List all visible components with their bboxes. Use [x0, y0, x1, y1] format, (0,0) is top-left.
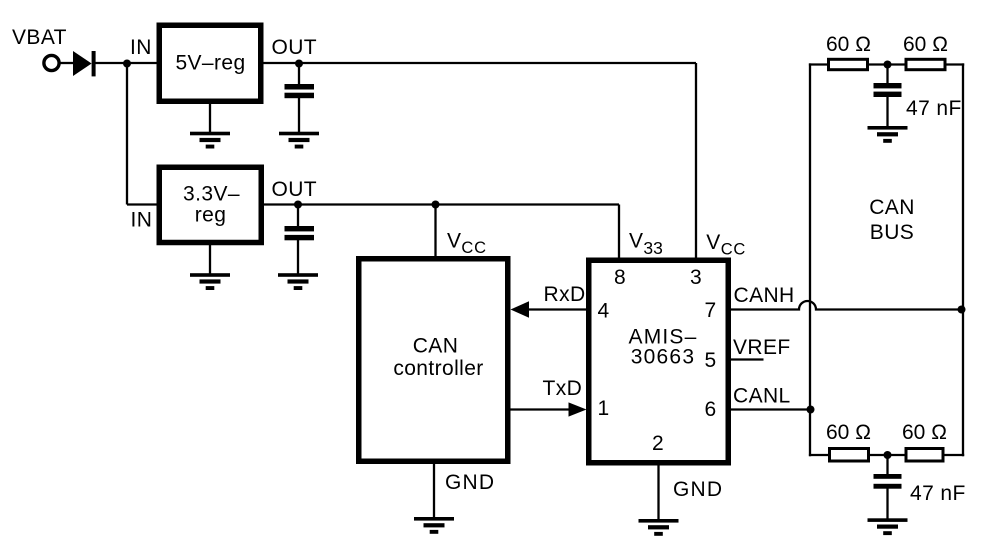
- ground below C4: [868, 518, 908, 535]
- resistor R2 60 ohm top-right: [906, 59, 945, 69]
- node CANH right rail junction: [958, 306, 966, 314]
- svg-text:7: 7: [704, 299, 716, 322]
- node 5V OUT junction: [295, 60, 303, 68]
- svg-text:TxD: TxD: [543, 377, 583, 400]
- svg-text:5V–reg: 5V–reg: [175, 52, 245, 75]
- svg-text:47 nF: 47 nF: [910, 482, 966, 505]
- svg-text:2: 2: [652, 432, 664, 455]
- wire RxD line: [527, 308, 586, 310]
- wire into 3.3V-reg IN: [127, 203, 157, 205]
- regulator U1 5V-reg box: [159, 25, 261, 101]
- node bottom termination junction: [884, 451, 892, 459]
- svg-text:V33: V33: [629, 230, 663, 259]
- node 3.3V OUT junction: [294, 201, 302, 209]
- resistor R4 60 ohm bottom-right: [906, 449, 943, 462]
- wire bottom 47nF cap to ground: [886, 488, 888, 519]
- op-amp U3 CAN controller box: [359, 259, 508, 462]
- ground below AMIS-30663: [639, 519, 679, 536]
- svg-text:VREF: VREF: [733, 336, 791, 359]
- wire CANH with hop over left bus rail: [731, 301, 962, 310]
- ground below C1: [279, 132, 319, 149]
- terminal VBAT: [44, 55, 59, 70]
- svg-text:3.3V–: 3.3V–: [183, 183, 240, 206]
- wire VREF stub pin 5: [731, 358, 764, 360]
- wire node IN down to 3.3V-reg: [126, 63, 128, 205]
- wire 3.3V rail down to CAN controller VCC: [434, 205, 436, 259]
- ground below C3: [868, 126, 908, 143]
- wire VBAT terminal to diode: [60, 62, 74, 64]
- svg-text:RxD: RxD: [544, 283, 586, 306]
- svg-text:60 Ω: 60 Ω: [902, 421, 947, 444]
- wire top bus segment right: [945, 63, 964, 65]
- svg-text:BUS: BUS: [870, 221, 914, 244]
- svg-text:3: 3: [690, 266, 702, 289]
- node VCC tap junction: [432, 201, 440, 209]
- svg-text:IN: IN: [131, 209, 153, 232]
- svg-text:1: 1: [597, 397, 609, 420]
- svg-text:OUT: OUT: [272, 178, 318, 201]
- wire bottom bus segment right: [943, 454, 964, 456]
- wire bottom 47nF cap top: [886, 455, 888, 475]
- wire 5V OUT rail: [264, 62, 697, 64]
- svg-text:5: 5: [704, 349, 716, 372]
- wire top 47nF cap top: [886, 65, 888, 84]
- capacitor C3 47nF top: [874, 83, 902, 97]
- wire CAN bus left rail: [809, 63, 811, 456]
- wire capacitor C2 to ground: [297, 240, 299, 274]
- arrowhead RxD: [511, 301, 530, 317]
- capacitor C4 47nF bottom: [874, 474, 902, 489]
- svg-text:VCC: VCC: [706, 231, 746, 259]
- svg-text:4: 4: [597, 300, 609, 323]
- svg-text:GND: GND: [673, 478, 723, 501]
- svg-text:30663: 30663: [631, 346, 695, 369]
- node IN junction: [123, 60, 131, 68]
- wire CANL to left bus rail: [731, 408, 811, 410]
- wire 5V-reg ground stem: [209, 104, 211, 133]
- svg-text:OUT: OUT: [272, 36, 318, 59]
- svg-text:6: 6: [704, 398, 716, 421]
- wire CAN controller ground stem: [433, 464, 435, 518]
- diode D1: [73, 51, 96, 76]
- wire 3.3V rail down to pin 8: [618, 205, 620, 261]
- svg-text:CANL: CANL: [733, 385, 791, 408]
- wire diode to 5V-reg IN: [96, 62, 157, 64]
- svg-text:47 nF: 47 nF: [906, 97, 962, 120]
- node CANL left rail junction: [807, 406, 815, 414]
- svg-text:GND: GND: [445, 471, 495, 494]
- capacitor C2: [285, 226, 315, 240]
- ground below 3.3V-reg: [190, 273, 230, 290]
- svg-text:VCC: VCC: [447, 230, 487, 258]
- wire 5V rail down to pin 3: [695, 63, 697, 259]
- wire bottom bus segment left: [809, 454, 830, 456]
- wire TxD line: [511, 408, 572, 410]
- transceiver U4 AMIS-30663 box: [589, 260, 729, 463]
- wire CAN bus right rail: [962, 63, 964, 456]
- regulator U2 3.3V-reg box: [159, 167, 261, 242]
- svg-text:IN: IN: [130, 36, 152, 59]
- wire capacitor C2 top: [297, 205, 299, 227]
- ground below C2: [278, 273, 318, 290]
- wire bottom bus segment middle: [869, 454, 907, 456]
- resistor R3 60 ohm bottom-left: [830, 449, 869, 462]
- wire top bus segment left: [809, 63, 828, 65]
- svg-text:60 Ω: 60 Ω: [903, 33, 948, 56]
- wire capacitor C1 top: [298, 63, 300, 85]
- wire 3.3V-reg ground stem: [209, 245, 211, 274]
- svg-text:CAN: CAN: [869, 196, 915, 219]
- svg-text:8: 8: [614, 266, 626, 289]
- ground below 5V-reg: [190, 132, 230, 149]
- wire AMIS ground stem: [657, 466, 659, 520]
- wire 3.3V OUT rail: [264, 203, 619, 205]
- svg-text:60 Ω: 60 Ω: [826, 33, 871, 56]
- svg-text:VBAT: VBAT: [12, 26, 67, 49]
- ground below CAN controller: [414, 517, 454, 534]
- arrowhead TxD: [569, 402, 587, 416]
- svg-text:60 Ω: 60 Ω: [826, 421, 871, 444]
- capacitor C1: [285, 84, 315, 98]
- svg-text:CAN: CAN: [413, 335, 459, 358]
- wire top 47nF cap to ground: [886, 97, 888, 127]
- node top termination junction: [884, 61, 892, 69]
- svg-text:CANH: CANH: [734, 284, 795, 307]
- wire top bus segment middle: [868, 63, 906, 65]
- wire capacitor C1 to ground: [298, 98, 300, 133]
- resistor R1 60 ohm top-left: [829, 59, 868, 69]
- svg-text:reg: reg: [195, 204, 227, 227]
- svg-text:controller: controller: [393, 357, 483, 380]
